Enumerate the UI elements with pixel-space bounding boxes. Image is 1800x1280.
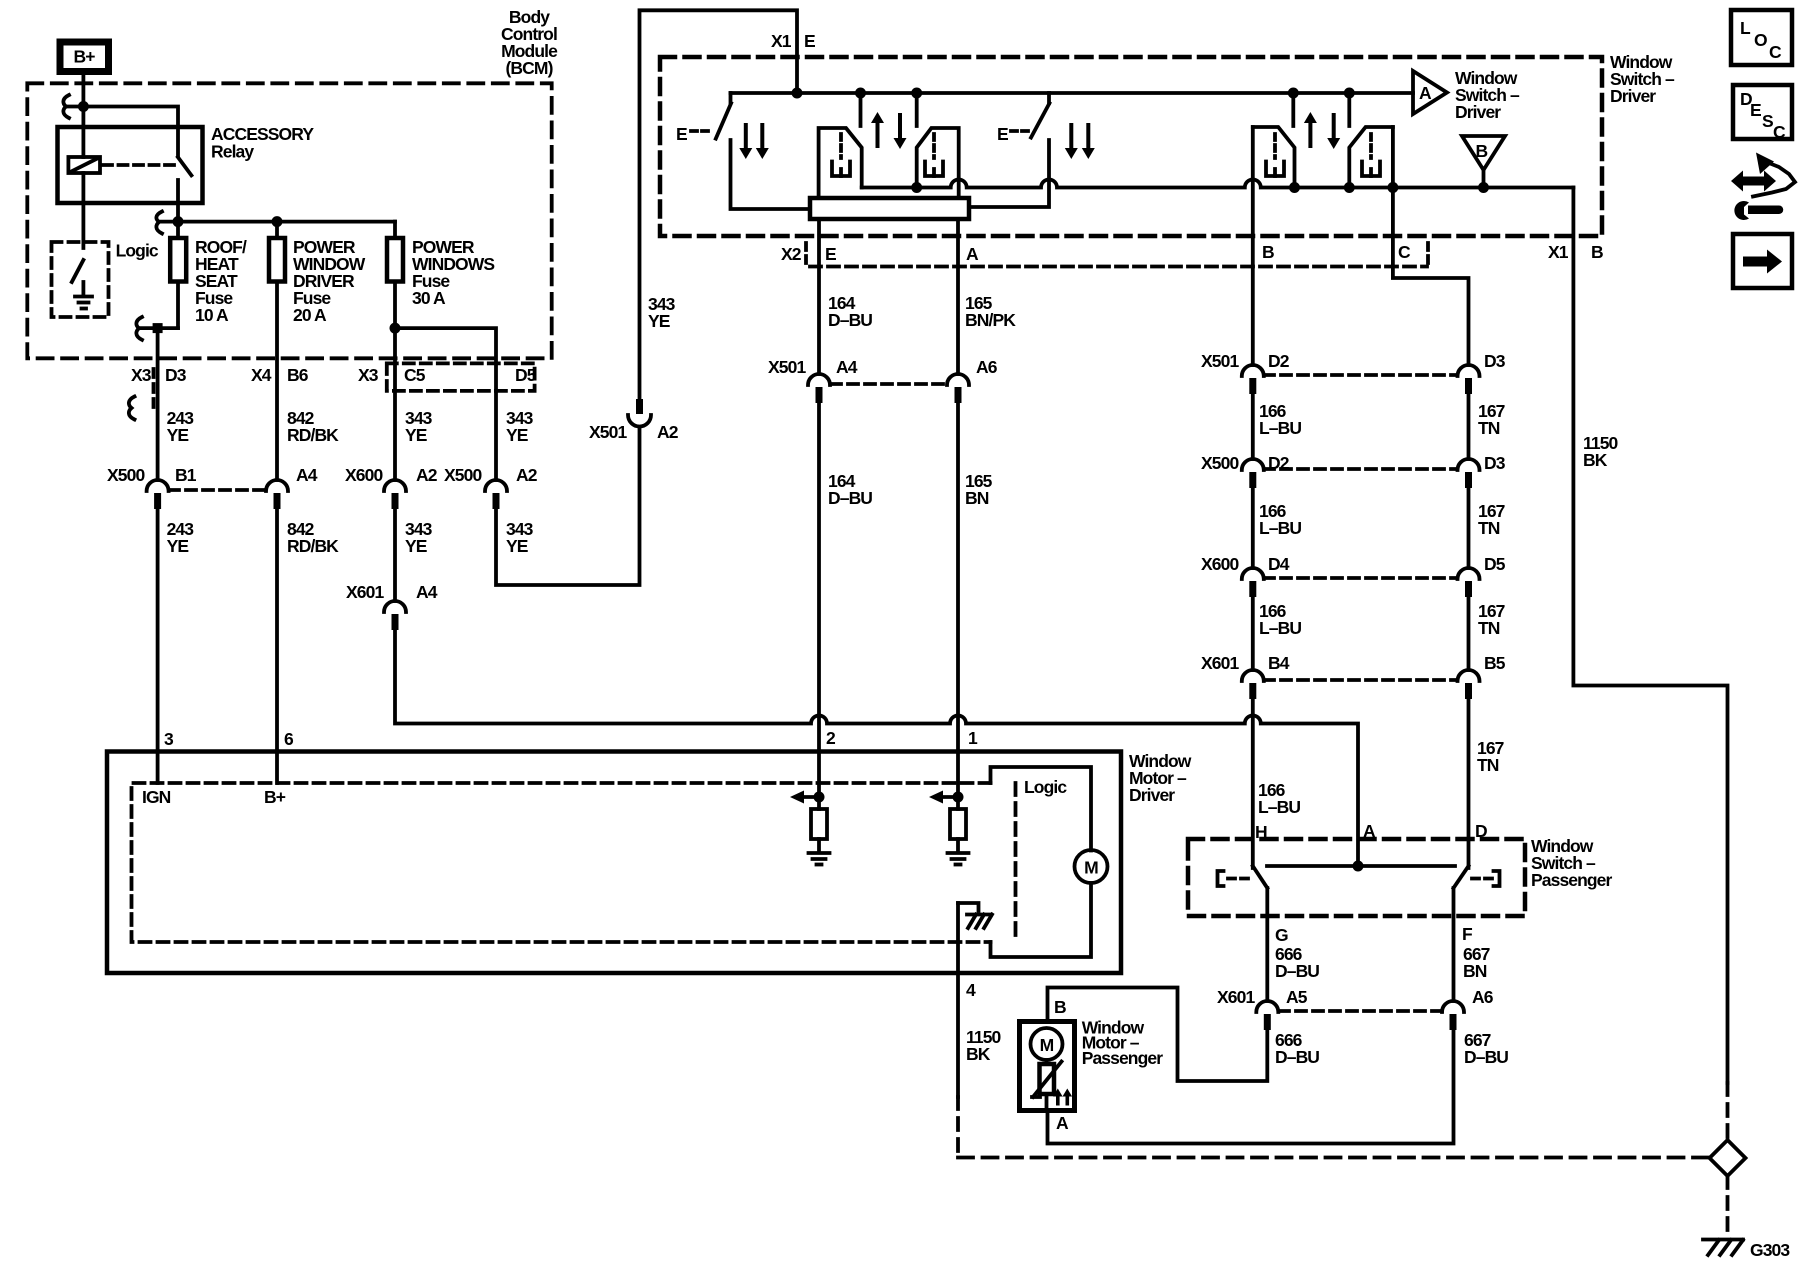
connector dashed link A5-A6 [1279, 1009, 1442, 1013]
svg-text:D–BU: D–BU [1275, 1047, 1319, 1067]
node right glyph pair stub right [1344, 88, 1355, 99]
connector X500 pin D2 [1201, 453, 1290, 488]
svg-text:A6: A6 [1472, 987, 1494, 1007]
wire label 842 RD/BK [287, 408, 339, 445]
wire label 343 YE (X1 E) [648, 294, 676, 331]
wire B to 166 L-BU [1251, 127, 1255, 365]
svg-text:X501: X501 [589, 422, 627, 442]
thermistor (passenger motor) [1032, 1060, 1062, 1097]
wire 343 YE branch to D5 [395, 328, 496, 480]
wire 667 D-BU to motor A [1048, 1030, 1454, 1144]
svg-text:M: M [1040, 1035, 1054, 1055]
commutator bus bar [810, 198, 969, 219]
fuse F3 label [412, 237, 494, 308]
switch mid-line with crossover hops [862, 180, 1574, 188]
arrow down (driver) [894, 113, 907, 149]
battery terminal B+ [60, 42, 109, 72]
svg-text:20 A: 20 A [293, 305, 327, 325]
fuse F2 label [293, 237, 366, 325]
wire label 167 TN (D) [1477, 738, 1504, 775]
svg-text:Logic: Logic [116, 241, 159, 261]
motor passenger dashed boundary left [956, 1097, 960, 1158]
node right glyph pair stub left [1288, 88, 1299, 99]
wire label 1150 BK (motor) [966, 1027, 1002, 1064]
svg-text:D–BU: D–BU [828, 310, 872, 330]
G F pin labels [1275, 924, 1473, 945]
Window Switch Driver dashed box [660, 57, 1602, 236]
node glyph stub right [911, 88, 922, 99]
Window Switch Passenger label [1531, 836, 1613, 890]
wire 166 to H [1251, 699, 1255, 868]
arrow up (passenger) [1304, 112, 1317, 148]
arrow up (driver) [871, 112, 884, 148]
relay coil-contact dashed link [103, 163, 174, 167]
logic switch [72, 260, 84, 282]
Window Motor Driver label [1129, 751, 1192, 805]
wire S2 output to commutator [969, 140, 1049, 207]
stub wires to window symbols [861, 93, 917, 126]
svg-text:X2: X2 [781, 244, 802, 264]
wire label 166 L-BU row1 [1259, 401, 1301, 438]
passenger switch common bar [1267, 864, 1455, 868]
connector dashed link D2-D3 row2 [1264, 467, 1457, 471]
svg-text:B: B [1476, 141, 1488, 161]
wire 842 RD/BK to B+ [275, 509, 279, 783]
wire label 666 D-BU lower [1275, 1030, 1319, 1067]
wire 666 D-BU to motor B [1048, 988, 1268, 1082]
ground (R1) [809, 853, 830, 865]
svg-text:YE: YE [506, 425, 528, 445]
chassis ground hatch [967, 915, 992, 929]
switch S1 contact drop [729, 93, 733, 103]
svg-text:X3: X3 [358, 365, 379, 385]
svg-text:X501: X501 [768, 357, 806, 377]
svg-text:YE: YE [167, 425, 189, 445]
wire label 164 D-BU [828, 293, 872, 330]
relay contact switch [178, 157, 192, 222]
connector dashed link B1-A4 [169, 488, 265, 492]
svg-text:A4: A4 [296, 465, 318, 485]
node fuse1 tap [173, 216, 184, 227]
svg-text:BK: BK [966, 1044, 991, 1064]
svg-text:TN: TN [1478, 418, 1500, 438]
triangle terminal A [1413, 71, 1447, 114]
svg-text:TN: TN [1477, 755, 1499, 775]
wire 167 seg3 [1467, 488, 1471, 568]
svg-text:C: C [1773, 122, 1786, 142]
svg-text:X601: X601 [346, 582, 384, 602]
connector X600 pin A2 [345, 465, 438, 509]
E bracket right [1472, 871, 1500, 886]
clip symbol on B+ branch [63, 95, 69, 118]
svg-text:Driver: Driver [1455, 102, 1501, 122]
passenger switch blade right [1454, 866, 1469, 888]
X2 connector labels [781, 244, 979, 264]
triangle terminal B [1462, 136, 1505, 188]
relay coil [68, 127, 100, 248]
connector X601 pin A5 [1217, 987, 1308, 1030]
dashed wire to G303 [1726, 1176, 1730, 1237]
svg-text:D3: D3 [1484, 351, 1506, 371]
wire R1 to ground [817, 839, 821, 852]
svg-text:B5: B5 [1484, 653, 1506, 673]
svg-text:C5: C5 [404, 365, 426, 385]
connector dashed link D4-D5 [1264, 576, 1457, 580]
svg-text:X500: X500 [444, 465, 482, 485]
H A D pin labels [1255, 821, 1487, 842]
svg-text:A: A [1056, 1113, 1069, 1133]
svg-text:Driver: Driver [1129, 785, 1175, 805]
wire fuse1 jog [139, 326, 178, 330]
resistor R2 [950, 809, 966, 839]
wire label 166 L-BU row2 [1259, 501, 1301, 538]
switch S2 contact drop [1047, 93, 1051, 103]
svg-text:BN: BN [965, 488, 989, 508]
node fuse2 tap [272, 216, 283, 227]
svg-text:D5: D5 [1484, 554, 1506, 574]
X1 E labels (top) [771, 31, 815, 51]
node glyph3 on mid-line [1289, 182, 1300, 193]
wire branch to relay switch [66, 107, 178, 157]
svg-text:G303: G303 [1750, 1240, 1790, 1260]
svg-text:Driver: Driver [1610, 86, 1656, 106]
svg-text:X601: X601 [1201, 653, 1239, 673]
wire label 167 TN row2 [1478, 501, 1505, 538]
svg-text:X1: X1 [771, 31, 792, 51]
arrow left (164 sense) [790, 791, 819, 804]
svg-text:X500: X500 [107, 465, 145, 485]
window glyph 4 interior [1362, 134, 1380, 176]
node 243 tap [153, 323, 163, 333]
wire label 343 YE (C5) [405, 408, 433, 445]
connector X500 pin B1 [107, 465, 197, 509]
svg-text:B: B [1591, 242, 1603, 262]
svg-text:D–BU: D–BU [828, 488, 872, 508]
switch S2 E dashed link [1011, 129, 1029, 133]
legend icon squiggle arrowhead [1756, 153, 1774, 175]
wire F from blade [1452, 888, 1456, 1001]
svg-text:Logic: Logic [1024, 777, 1067, 797]
svg-text:(BCM): (BCM) [505, 58, 552, 78]
svg-text:C: C [1769, 42, 1782, 62]
stub wires right pair [1293, 93, 1349, 126]
window glyph 1 [819, 128, 862, 198]
wire 343 YE horizontal run with hops [395, 630, 1358, 866]
clip symbol on fuse1 output [136, 317, 142, 340]
svg-text:Passenger: Passenger [1082, 1048, 1164, 1068]
switch supply bus [731, 91, 1414, 95]
relay label [211, 124, 314, 162]
connector X601 pin A6 [1442, 987, 1494, 1030]
arrows down (S2) [1065, 123, 1095, 159]
ground (R2) [948, 853, 969, 865]
wire 343 YE top run to X1 E [640, 10, 798, 399]
node glyph4 on mid-line [1344, 182, 1355, 193]
wire 166 seg3 [1251, 488, 1255, 568]
connector X601 pin A4 [346, 582, 438, 630]
svg-text:YE: YE [167, 536, 189, 556]
svg-text:L–BU: L–BU [1259, 618, 1301, 638]
DESC legend box [1733, 85, 1792, 142]
splice diamond S [1710, 1140, 1746, 1176]
wire label 167 TN row1 [1478, 401, 1505, 438]
connector X3 C5/D5 dashed box [387, 363, 535, 391]
logic solid outline upper [991, 767, 1092, 851]
svg-text:S: S [1762, 111, 1773, 131]
svg-text:30 A: 30 A [412, 288, 446, 308]
clip symbol on fuse bus [156, 212, 162, 234]
switch S1 blade (driver down) [716, 103, 731, 138]
X3 C5 D5 labels [358, 365, 537, 385]
Body Control Module (BCM) dashed box [27, 83, 551, 358]
ground G303 [1703, 1240, 1790, 1261]
svg-text:C: C [1398, 242, 1411, 262]
wire label 243 YE [167, 408, 195, 445]
node fuse3 branch [390, 323, 401, 334]
svg-text:L: L [1740, 18, 1751, 38]
window glyph 2 [917, 128, 959, 198]
wire motor A out [1045, 1094, 1049, 1111]
svg-text:X4: X4 [251, 365, 272, 385]
svg-text:BK: BK [1583, 450, 1608, 470]
Window Switch Driver label (at A) [1455, 68, 1520, 122]
GO-TO arrow box [1733, 234, 1792, 288]
svg-text:D–BU: D–BU [1464, 1047, 1508, 1067]
wire 166 seg4 [1251, 597, 1255, 670]
svg-text:A2: A2 [516, 465, 538, 485]
Window Switch Driver label (right) [1610, 52, 1675, 106]
svg-text:B: B [1262, 242, 1274, 262]
C pin separator [1426, 243, 1430, 265]
svg-text:X601: X601 [1217, 987, 1255, 1007]
svg-text:RD/BK: RD/BK [287, 536, 339, 556]
connector X501 pin A6 [947, 357, 998, 403]
wire 343 YE (D5) to X501 A2 [496, 427, 640, 585]
svg-text:E: E [997, 124, 1008, 144]
svg-text:G: G [1275, 925, 1288, 945]
svg-text:4: 4 [966, 980, 976, 1000]
legend icon double arrow [1731, 171, 1776, 192]
X3 D3 labels [131, 365, 187, 385]
svg-text:E: E [804, 31, 815, 51]
dashed wire to splice above [1726, 1083, 1730, 1140]
wire C to 167 TN [1393, 127, 1469, 365]
svg-text:A4: A4 [836, 357, 858, 377]
svg-text:10 A: 10 A [195, 305, 229, 325]
BCM logic dashed box [52, 242, 109, 317]
svg-text:A5: A5 [1286, 987, 1308, 1007]
wire label 343 YE (D5) [506, 408, 534, 445]
wire 167 seg4 [1467, 597, 1471, 670]
svg-text:B+: B+ [264, 787, 286, 807]
wire S1 output to commutator [731, 140, 811, 209]
arrow down (passenger) [1327, 113, 1340, 149]
wire label 1150 BK [1583, 433, 1619, 470]
legend icon wrench [1734, 201, 1783, 220]
logic dashed divider [1014, 783, 1018, 942]
wire label 166 L-BU (H) [1258, 780, 1300, 817]
svg-text:X3: X3 [131, 365, 152, 385]
svg-text:B: B [1054, 997, 1066, 1017]
svg-text:Passenger: Passenger [1531, 870, 1613, 890]
window glyph 4 [1349, 127, 1393, 188]
connector dashed link A4-A6 [831, 382, 947, 386]
wire label 165 BN lower [965, 471, 993, 508]
fuse feed bus wire [159, 220, 395, 224]
node arrow tap 165 [953, 792, 964, 803]
node C wire on mid-line [1387, 182, 1398, 193]
window glyph 1 interior [832, 134, 850, 176]
svg-text:E: E [1750, 100, 1761, 120]
connector X501 pin D3 [1458, 351, 1506, 394]
wire 243 YE to IGN [156, 509, 160, 783]
window glyph 2 interior [925, 134, 943, 176]
arrow left (165 sense) [929, 791, 958, 804]
svg-text:F: F [1462, 924, 1473, 944]
wire 1150 BK from B [1573, 188, 1727, 1084]
svg-text:3: 3 [164, 729, 174, 749]
node A tap [1353, 861, 1364, 872]
svg-text:X600: X600 [1201, 554, 1239, 574]
LOC legend box [1731, 10, 1792, 65]
wire label 667 D-BU lower [1464, 1030, 1508, 1067]
fuse F2 POWER WINDOW DRIVER 20A [269, 222, 285, 480]
wire label 167 TN row3b [1478, 601, 1505, 638]
connector X501 pin A2 (facing up) [589, 399, 679, 442]
wire 165 BN/PK (A pin) [956, 219, 960, 374]
svg-text:B4: B4 [1268, 653, 1290, 673]
motor passenger dashed boundary bottom [958, 1156, 1710, 1160]
wire 243 YE upper [156, 328, 160, 480]
connector X601 pin B4 [1201, 653, 1290, 699]
Window Motor Passenger box [1020, 1022, 1075, 1111]
connector X500 pin A4 [266, 465, 318, 509]
wire label 164 D-BU lower [828, 471, 872, 508]
svg-text:E: E [676, 124, 687, 144]
wire 166 seg2 [1251, 394, 1255, 459]
connector X501 pin D2 [1201, 351, 1290, 394]
X4 B6 labels [251, 365, 309, 385]
svg-text:2: 2 [826, 728, 836, 748]
BCM label [501, 7, 558, 78]
wire 1150 BK pin 4 [956, 903, 960, 1097]
connector X501 pin A4 [768, 357, 858, 403]
motor M driver [1075, 850, 1108, 883]
svg-text:X1: X1 [1548, 242, 1569, 262]
wire label 166 L-BU row3b [1259, 601, 1301, 638]
window glyph 3 [1253, 127, 1295, 188]
connector X500 pin D3 [1458, 453, 1506, 488]
connector dashed link D2-D3 [1264, 373, 1457, 377]
wire 167 seg2 [1467, 394, 1471, 459]
wire label 842 RD/BK lower [287, 519, 339, 556]
B C X1 B pin labels [1262, 242, 1603, 262]
wire label 343 YE (D5) lower [506, 519, 534, 556]
svg-text:B1: B1 [175, 465, 197, 485]
svg-text:B6: B6 [287, 365, 309, 385]
chassis ground hook (motor driver) [958, 903, 979, 911]
wire G from blade [1265, 888, 1269, 1001]
svg-text:BN/PK: BN/PK [965, 310, 1016, 330]
Window Motor Driver box [107, 752, 1121, 974]
switch S1 E dashed link [691, 129, 713, 133]
svg-text:A: A [1419, 83, 1432, 103]
svg-text:M: M [1084, 858, 1098, 878]
connector dashed link B4-B5 [1264, 678, 1457, 682]
svg-text:A: A [966, 244, 979, 264]
node glyph stub left [855, 88, 866, 99]
svg-text:1: 1 [968, 728, 978, 748]
svg-text:YE: YE [405, 536, 427, 556]
node X1 E on bus [792, 88, 803, 99]
svg-text:O: O [1754, 30, 1767, 50]
svg-text:6: 6 [284, 729, 294, 749]
svg-text:TN: TN [1478, 518, 1500, 538]
wire label 343 YE lower [405, 519, 433, 556]
logic solid outline lower [991, 883, 1092, 957]
resistor R1 [811, 809, 827, 839]
wire B+ feed [82, 75, 86, 127]
wire 164 D-BU lower [817, 403, 821, 809]
svg-text:D4: D4 [1268, 554, 1290, 574]
wire label 667 BN [1463, 944, 1490, 981]
window glyph 3 interior [1266, 134, 1284, 176]
svg-text:X500: X500 [1201, 453, 1239, 473]
arrows up (thermal) [1053, 1089, 1072, 1106]
motor M passenger [1031, 1028, 1063, 1060]
node arrow tap 164 [814, 792, 825, 803]
svg-text:BN: BN [1463, 961, 1487, 981]
svg-text:A6: A6 [976, 357, 998, 377]
motor driver inner dashed boundary [132, 783, 991, 942]
arrows down (S1) [739, 123, 769, 159]
wire 167 to D [1467, 699, 1471, 868]
svg-text:D2: D2 [1268, 351, 1290, 371]
X2 connector separator [804, 243, 808, 265]
Window Motor Passenger label [1082, 1018, 1164, 1069]
switch S2 blade (passenger down from driver) [1031, 103, 1049, 137]
connector X601 pin B5 [1458, 653, 1506, 699]
svg-text:D3: D3 [1484, 453, 1506, 473]
svg-text:Relay: Relay [211, 142, 254, 162]
svg-text:A4: A4 [416, 582, 438, 602]
node junction B+/relay branch [78, 101, 89, 112]
node glyph2 on mid-line [911, 182, 922, 193]
wire label 243 YE lower [167, 519, 195, 556]
X2 connector dashed line [810, 265, 1427, 269]
svg-text:L–BU: L–BU [1259, 518, 1301, 538]
svg-text:X600: X600 [345, 465, 383, 485]
wire label 666 D-BU upper [1275, 944, 1319, 981]
connector X600 pin D5 [1458, 554, 1506, 597]
wire 165 BN lower [956, 403, 960, 809]
svg-text:YE: YE [648, 311, 670, 331]
svg-text:RD/BK: RD/BK [287, 425, 339, 445]
svg-text:IGN: IGN [142, 787, 171, 807]
connector X500 pin A2 [444, 465, 538, 509]
legend icon squiggle arrow [1753, 162, 1795, 197]
fuse F3 POWER WINDOWS 30A [387, 222, 403, 480]
connector X3 pin D3 separator [152, 369, 156, 410]
svg-text:X501: X501 [1201, 351, 1239, 371]
connector X600 pin D4 [1201, 554, 1290, 597]
Window Switch Passenger dashed box [1188, 839, 1525, 916]
svg-text:TN: TN [1478, 618, 1500, 638]
wire 164 D-BU (E pin) [817, 219, 821, 374]
clip symbol on wire 243 [129, 397, 135, 420]
wire R2 to ground [956, 839, 960, 852]
passenger switch blade left [1253, 866, 1268, 888]
